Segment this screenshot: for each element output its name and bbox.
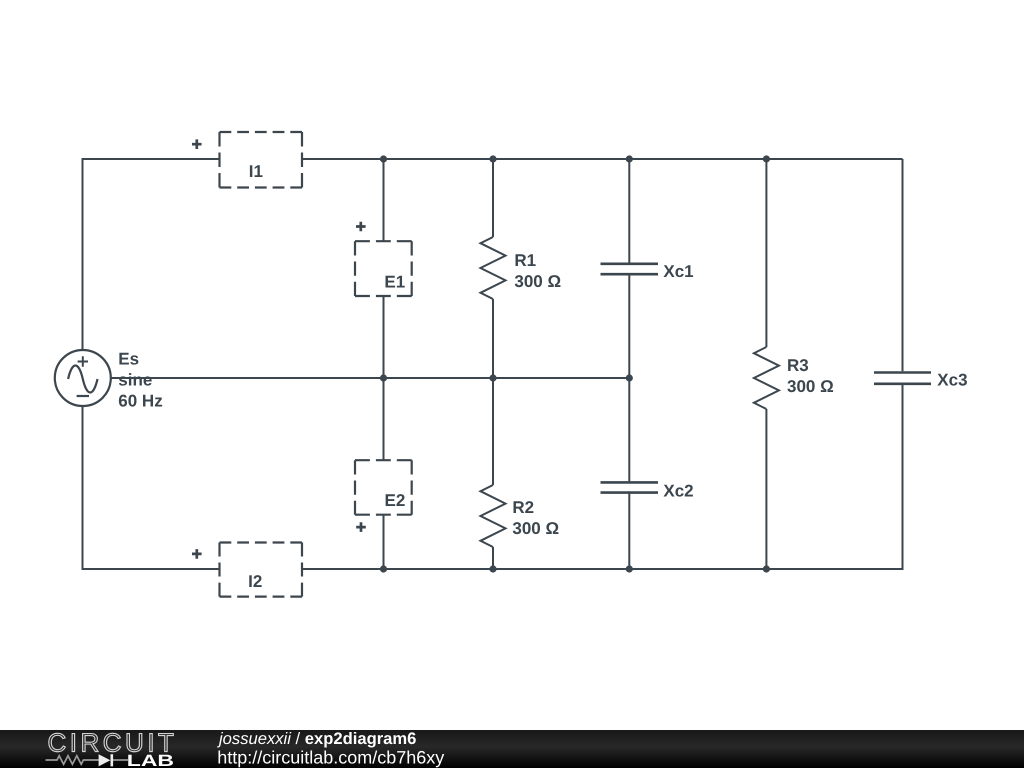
wire: E1 branch top — [383, 159, 385, 241]
svg-text:300 Ω: 300 Ω — [512, 519, 559, 538]
node: middle rail junction at E column — [380, 374, 387, 381]
wire: Xc3 bottom plate to bottom-right corner and rail to I2 right — [302, 385, 903, 569]
probe box I2 (dashed) — [220, 543, 303, 597]
wire: R1 branch bottom — [492, 299, 494, 378]
wire: Xc2 branch top — [628, 378, 630, 481]
svg-text:E2: E2 — [385, 491, 406, 510]
wire: top rail from I1 right to top-right corner — [302, 158, 903, 160]
resistor R2 — [481, 485, 506, 547]
wire: Xc1 branch top — [628, 159, 630, 263]
probe box I1 (dashed) — [220, 132, 303, 188]
svg-text:E1: E1 — [384, 273, 405, 292]
node: bottom rail junction at E column — [380, 565, 387, 572]
svg-text:Xc3: Xc3 — [937, 370, 967, 389]
resistor R3 — [754, 347, 779, 409]
wire: bottom rail from I2 left to source bottom — [83, 406, 220, 569]
polarity + for E1 — [356, 222, 366, 232]
svg-text:Xc2: Xc2 — [663, 482, 693, 501]
label Es sine 60 Hz — [118, 350, 162, 411]
label R2 value — [512, 498, 559, 538]
node: middle rail junction at Xc column — [626, 374, 633, 381]
voltage source Es — [55, 350, 111, 406]
wire: E2 branch bottom — [383, 515, 385, 569]
probe box E1 (dashed) — [355, 241, 412, 296]
wire: E2 branch top — [383, 378, 385, 460]
svg-text:300 Ω: 300 Ω — [514, 272, 561, 291]
polarity + for E2 — [356, 522, 366, 532]
svg-text:R3: R3 — [787, 356, 809, 375]
wire: middle rail overlay across sine label — [111, 377, 185, 379]
svg-text:Es: Es — [118, 350, 139, 369]
wire: middle rail from source to Xc column — [111, 377, 630, 379]
capacitor Xc1 — [601, 264, 659, 274]
node: top rail junction at E column — [380, 155, 387, 162]
svg-text:jossuexxii / exp2diagram6: jossuexxii / exp2diagram6 — [217, 729, 416, 748]
wire: R3 branch bottom — [765, 409, 767, 569]
probe box E2 (dashed) — [355, 460, 412, 515]
wire: R2 branch top — [492, 378, 494, 485]
footer bar — [0, 730, 1024, 768]
wire: R1 branch top — [492, 159, 494, 237]
wire: right edge down to Xc3 top plate — [902, 159, 904, 371]
svg-text:I1: I1 — [249, 162, 263, 181]
svg-text:http://circuitlab.com/cb7h6xy: http://circuitlab.com/cb7h6xy — [217, 748, 444, 768]
logo resistor-diode squiggle — [46, 756, 129, 765]
svg-text:R2: R2 — [512, 498, 534, 517]
wire: E1 branch bottom — [383, 296, 385, 378]
svg-text:300 Ω: 300 Ω — [787, 377, 834, 396]
resistor R1 — [481, 237, 506, 299]
wire: Xc1 branch bottom — [628, 275, 630, 378]
capacitor Xc3 — [874, 373, 931, 384]
node: top rail junction at R column — [489, 155, 496, 162]
svg-text:sine: sine — [118, 371, 152, 390]
capacitor Xc2 — [601, 482, 659, 492]
svg-text:60 Hz: 60 Hz — [118, 392, 162, 411]
wire: R3 branch top — [765, 159, 767, 347]
logo diode — [99, 754, 111, 766]
node: bottom rail junction at R3 column — [763, 565, 770, 572]
node: bottom rail junction at R column — [489, 565, 496, 572]
svg-text:R1: R1 — [514, 251, 536, 270]
node: bottom rail junction at Xc column — [626, 565, 633, 572]
svg-text:LAB: LAB — [127, 752, 174, 768]
wire: Xc2 branch bottom — [628, 493, 630, 569]
node: middle rail junction at R column — [489, 374, 496, 381]
svg-text:I2: I2 — [248, 572, 262, 591]
polarity + for I2 — [192, 549, 202, 559]
node: top rail junction at R3 column — [763, 155, 770, 162]
polarity + for I1 — [192, 139, 202, 149]
wire: top rail from source to I1 left — [83, 159, 220, 350]
svg-text:Xc1: Xc1 — [663, 262, 693, 281]
node: top rail junction at Xc column — [626, 155, 633, 162]
label R3 value — [787, 356, 834, 396]
label R1 value — [514, 251, 561, 291]
wire: R2 branch bottom — [492, 547, 494, 569]
